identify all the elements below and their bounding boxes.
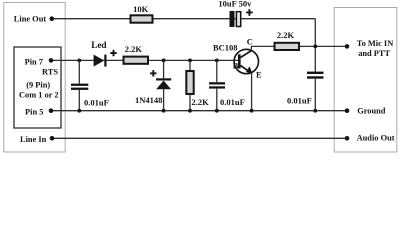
svg-text:Line Out: Line Out — [14, 15, 47, 24]
plus 1N4148 — [150, 70, 156, 76]
resistor 2.2K collector R4 — [275, 43, 300, 50]
svg-text:0.01uF: 0.01uF — [84, 97, 109, 107]
svg-text:C: C — [247, 36, 253, 46]
wire capacitor C2 branch — [216, 60, 218, 82]
node Pin 5 terminal — [49, 108, 54, 113]
node junction C2 — [215, 59, 219, 63]
resistor 2.2K series R2 — [124, 57, 149, 64]
capacitor C2 0.01uF — [209, 82, 225, 84]
node To Mic terminal — [345, 44, 350, 49]
svg-text:BC108: BC108 — [213, 43, 238, 53]
resistor 2.2K shunt R3 (vertical) — [189, 60, 191, 71]
svg-text:To Mic IN: To Mic IN — [357, 39, 393, 48]
svg-text:2.2K: 2.2K — [125, 44, 143, 54]
node junction collector/C5 — [313, 45, 317, 49]
wire emitter — [251, 73, 253, 111]
node Line In terminal — [50, 136, 55, 141]
node junction C1 — [77, 59, 81, 63]
svg-text:(9 Pin): (9 Pin) — [26, 81, 50, 90]
wire Line In rail — [52, 137, 347, 139]
svg-text:0.01uF: 0.01uF — [287, 96, 312, 106]
svg-text:2.2K: 2.2K — [192, 97, 210, 107]
wire Ground rail — [51, 110, 347, 112]
svg-text:and PTT: and PTT — [358, 49, 390, 58]
transistor Q1 BC108 — [234, 49, 258, 73]
svg-text:RTS: RTS — [42, 67, 58, 76]
svg-text:Audio Out: Audio Out — [357, 134, 395, 143]
wire capacitor C1 branch — [78, 60, 80, 83]
diode Led D1 — [94, 55, 105, 67]
node junction E-gnd — [250, 109, 254, 113]
node junction C5-gnd — [313, 109, 317, 113]
node Audio Out terminal — [345, 136, 350, 141]
node RTS terminal — [49, 58, 54, 63]
wire RTS rail — [51, 59, 239, 61]
svg-text:Led: Led — [91, 40, 106, 50]
wire below capacitor C5 — [314, 79, 316, 111]
node junction C1-gnd — [77, 109, 81, 113]
svg-text:1N4148: 1N4148 — [135, 95, 162, 105]
resistor 10K — [131, 15, 153, 22]
diode 1N4148 D2 — [163, 60, 165, 78]
node Ground terminal — [345, 108, 350, 113]
svg-text:Com 1 or 2: Com 1 or 2 — [19, 90, 59, 99]
right interface box (radio) — [334, 8, 397, 153]
capacitor C5 0.01uF — [307, 72, 324, 74]
wire top-right vertical — [314, 19, 316, 72]
svg-text:2.2K: 2.2K — [277, 30, 295, 40]
svg-text:Ground: Ground — [357, 106, 386, 115]
svg-text:E: E — [256, 70, 262, 80]
svg-text:Pin 7: Pin 7 — [25, 57, 43, 66]
plus 10uF — [246, 9, 253, 16]
wire collector rail — [251, 46, 347, 50]
node junction R3-gnd — [188, 109, 192, 113]
svg-text:10K: 10K — [133, 4, 149, 14]
wire Line Out rail — [52, 18, 316, 20]
capacitor 10uF 50v (electrolytic) — [230, 11, 235, 27]
svg-text:0.01uF: 0.01uF — [220, 97, 245, 107]
plus Led — [110, 50, 116, 56]
svg-text:B: B — [233, 60, 239, 70]
svg-text:Pin 5: Pin 5 — [25, 107, 43, 116]
node Line Out terminal — [50, 16, 55, 21]
capacitor C1 0.01uF — [71, 84, 88, 86]
node junction R3 — [188, 59, 192, 63]
node junction D2 — [162, 59, 166, 63]
left interface box (computer sound card / serial port) — [4, 3, 65, 153]
svg-text:Line In: Line In — [20, 135, 47, 144]
node junction C2-gnd — [215, 109, 219, 113]
node junction D2-gnd — [162, 109, 166, 113]
connector box (9 Pin Com port) — [14, 47, 61, 128]
svg-text:10uF 50v: 10uF 50v — [218, 0, 252, 9]
